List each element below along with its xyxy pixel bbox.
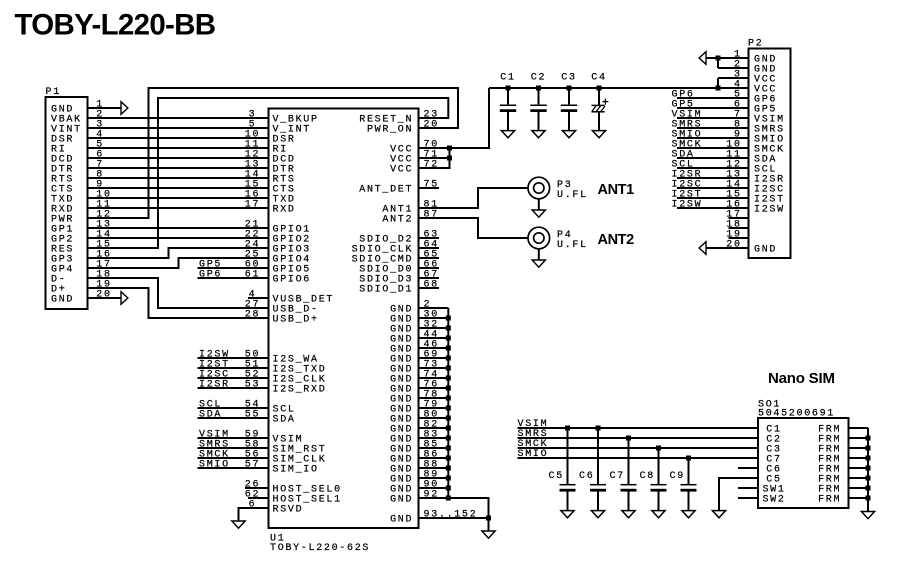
svg-text:C8: C8 xyxy=(640,471,655,482)
wire net VCC U1 pin 72 xyxy=(419,148,450,168)
P1 pin numbers 1-20 xyxy=(96,99,111,300)
U1 right pin numbers xyxy=(424,109,478,520)
svg-text:SDA: SDA xyxy=(273,414,296,425)
wire stub SIM SW1 xyxy=(738,487,758,489)
ground at C5 xyxy=(561,511,574,518)
junction dots SIM nets xyxy=(565,426,691,461)
svg-text:SDA: SDA xyxy=(199,410,222,421)
wire P2 pin 3 VCC xyxy=(718,78,749,88)
wire stub P2 pin 19 xyxy=(729,237,749,239)
wire stub U1 VUSB_DET pin 4 xyxy=(248,297,269,299)
wire net RXD P1 to U1 xyxy=(88,207,269,209)
Nano SIM heading xyxy=(768,370,835,387)
ground arrow P2 pin 20 GND xyxy=(699,242,748,255)
coax connector P4 U.FL xyxy=(528,227,588,260)
wire net VCC U1 pin 71 xyxy=(419,157,450,159)
svg-text:RSVD: RSVD xyxy=(273,504,304,515)
wire net D+ P1.19 to U1 USB_D+ xyxy=(88,288,269,318)
svg-text:ANT1: ANT1 xyxy=(598,182,635,198)
wire stub U1 SDIO_CLK pin 64 xyxy=(419,247,440,249)
wire net I2SR stub at U1 xyxy=(198,380,269,391)
svg-text:C6: C6 xyxy=(579,471,594,482)
ground arrow P1 pin 20 GND xyxy=(88,292,128,305)
junction VCC pins 70-72 xyxy=(447,146,452,161)
wire net SMRS at P2 xyxy=(672,120,749,131)
wire net DSR P1 to U1 xyxy=(88,137,269,139)
svg-text:P1: P1 xyxy=(46,87,61,98)
capacitor C1 xyxy=(500,72,516,130)
svg-text:28: 28 xyxy=(245,309,260,320)
svg-text:PWR_ON: PWR_ON xyxy=(367,124,413,135)
svg-text:GND: GND xyxy=(754,244,777,255)
svg-text:SMIO: SMIO xyxy=(199,460,230,471)
wire stub U1 SDIO_D0 pin 66 xyxy=(419,267,440,269)
svg-text:C4: C4 xyxy=(591,72,606,83)
svg-text:ANT_DET: ANT_DET xyxy=(359,184,413,195)
U1 left pin numbers xyxy=(245,109,260,510)
ground at C1 xyxy=(501,131,514,138)
svg-text:C7: C7 xyxy=(610,471,625,482)
wire net I2ST at P2 xyxy=(672,190,749,201)
wire net VINT P1 to U1 xyxy=(88,127,269,129)
svg-text:61: 61 xyxy=(245,269,260,280)
svg-text:FRM: FRM xyxy=(818,494,841,505)
P2 pin numbers 1-20 xyxy=(726,49,741,250)
svg-text:TOBY-L220-62S: TOBY-L220-62S xyxy=(270,543,370,554)
wire net I2SC at P2 xyxy=(672,180,749,191)
ground at C9 xyxy=(682,511,695,518)
wire stub U1 SDIO_D2 pin 63 xyxy=(419,237,440,239)
capacitor C8 xyxy=(640,448,667,511)
svg-text:C2: C2 xyxy=(531,72,546,83)
svg-text:RXD: RXD xyxy=(273,204,296,215)
wire net CTS P1 to U1 xyxy=(88,187,269,189)
svg-text:VCC: VCC xyxy=(390,164,413,175)
title TOBY-L220-BB xyxy=(15,9,216,42)
ground at SIM C5 xyxy=(712,511,725,518)
wire net RTS P1 to U1 xyxy=(88,177,269,179)
connector P2 xyxy=(748,38,791,258)
ground at C8 xyxy=(652,511,665,518)
wire net ANT1 U1 pin 81 to P3 xyxy=(419,188,529,208)
svg-text:53: 53 xyxy=(245,379,260,390)
capacitor C2 xyxy=(530,72,546,130)
wire U1 RSVD pin 6 to ground xyxy=(239,508,269,521)
wire net DTR P1 to U1 xyxy=(88,167,269,169)
wire P2 pin 2 GND xyxy=(718,58,749,68)
capacitor C4 polarized xyxy=(591,72,608,130)
wire net VCC U1 pin 70 to rail xyxy=(419,88,490,148)
ground at P4 xyxy=(532,260,545,267)
wire net GP5 at P2 xyxy=(672,100,749,111)
svg-text:C1: C1 xyxy=(500,72,515,83)
wire net SMIO stub at U1 xyxy=(198,460,269,471)
svg-text:SDIO_D1: SDIO_D1 xyxy=(359,284,413,295)
svg-text:17: 17 xyxy=(245,199,260,210)
wire net SMIO to SIM xyxy=(518,449,759,460)
wire net DCD P1 to U1 xyxy=(88,157,269,159)
junction dots GND bus xyxy=(446,316,491,521)
svg-text:6: 6 xyxy=(249,499,257,510)
U1 left pin names xyxy=(273,114,342,515)
op-amp U1 TOBY-L220-62S module box xyxy=(269,109,419,555)
svg-text:SIM_IO: SIM_IO xyxy=(273,464,319,475)
svg-text:C5: C5 xyxy=(549,471,564,482)
node ANT1 label xyxy=(598,182,635,198)
wire net SDA stub at U1 xyxy=(198,410,269,421)
wire stub U1 SDIO_D3 pin 67 xyxy=(419,277,440,279)
wire stub U1 SDIO_D1 pin 68 xyxy=(419,287,440,289)
wire GND bus at U1 right xyxy=(419,308,489,531)
svg-text:I2SW: I2SW xyxy=(672,200,703,211)
svg-text:GND: GND xyxy=(390,514,413,525)
svg-text:I2S_RXD: I2S_RXD xyxy=(273,384,327,395)
ground at C4 xyxy=(592,131,605,138)
wire net VSIM to SIM xyxy=(518,419,759,430)
wire SIM C5 to ground xyxy=(719,478,758,511)
wire net I2SC stub at U1 xyxy=(198,370,269,381)
svg-text:ANT2: ANT2 xyxy=(382,214,413,225)
wire net D- P1.18 to U1 USB_D- xyxy=(88,278,269,308)
wire net PWR P1.12 to U1 PWR_ON pin 20 xyxy=(88,88,459,218)
svg-text:SMIO: SMIO xyxy=(518,449,549,460)
wire net SMRS stub at U1 xyxy=(198,440,269,451)
svg-text:20: 20 xyxy=(424,119,439,130)
svg-text:C3: C3 xyxy=(561,72,576,83)
wire net SMCK stub at U1 xyxy=(198,450,269,461)
wire net VSIM stub at U1 xyxy=(198,430,269,441)
wire net SMCK at P2 xyxy=(672,140,749,151)
capacitor C9 xyxy=(670,458,697,511)
wire net I2SW stub at U1 xyxy=(198,350,269,361)
svg-text:TOBY-L220-BB: TOBY-L220-BB xyxy=(15,9,216,42)
svg-text:USB_D+: USB_D+ xyxy=(273,314,319,325)
coax connector P3 U.FL xyxy=(528,177,588,210)
svg-text:ANT2: ANT2 xyxy=(598,232,635,248)
node ANT2 label xyxy=(598,232,635,248)
wire stub U1 SDIO_CMD pin 65 xyxy=(419,257,440,259)
svg-text:Nano SIM: Nano SIM xyxy=(768,370,835,387)
ground at C6 xyxy=(591,511,604,518)
capacitor C7 xyxy=(610,438,637,511)
svg-text:GND: GND xyxy=(390,494,413,505)
connector P1 xyxy=(46,87,88,309)
ground at P3 xyxy=(532,210,545,217)
svg-text:C9: C9 xyxy=(670,471,685,482)
svg-text:P2: P2 xyxy=(748,38,763,49)
svg-text:57: 57 xyxy=(245,459,260,470)
ground at U1 RSVD xyxy=(232,521,245,528)
ground at C2 xyxy=(532,131,545,138)
junction dots FRM bus xyxy=(866,436,871,501)
svg-text:I2SR: I2SR xyxy=(199,380,230,391)
ground at FRM bus xyxy=(861,512,874,519)
wire net VSIM at P2 xyxy=(672,110,749,121)
junction P2 GND xyxy=(716,56,721,61)
wire net RI P1 to U1 xyxy=(88,147,269,149)
wire net SMCK to SIM xyxy=(518,439,759,450)
svg-text:GP6: GP6 xyxy=(199,270,222,281)
ground at U1 GND pins xyxy=(482,531,495,538)
wire net I2SR at P2 xyxy=(672,170,749,181)
U1 right pin names xyxy=(352,114,414,525)
junction dots VCC rail xyxy=(506,86,721,91)
wire net RES P1.15 to U1 RESET_N pin 23 xyxy=(88,98,449,248)
wire net I2ST stub at U1 xyxy=(198,360,269,371)
capacitor C6 xyxy=(579,428,606,511)
svg-text:U.FL: U.FL xyxy=(557,190,588,201)
wire stub SIM C6 xyxy=(738,467,758,469)
wire stub P2 pin 18 xyxy=(729,227,749,229)
wire FRM bus at SIM xyxy=(849,428,869,512)
wire stub U1 HOST_SEL0 pin 26 xyxy=(245,487,269,489)
wire net GP6 at P2 xyxy=(672,90,749,101)
ground at C7 xyxy=(622,511,635,518)
ground at C3 xyxy=(562,131,575,138)
svg-text:5045200691: 5045200691 xyxy=(758,409,835,420)
SIM connector SO1 5045200691 box xyxy=(758,400,849,509)
wire net SCL stub at U1 xyxy=(198,400,269,411)
wire stub SIM SW2 xyxy=(738,497,758,499)
wire net GP1 P1 to U1 xyxy=(88,227,269,229)
wire stub U1 HOST_SEL1 pin 62 xyxy=(248,497,269,499)
wire net GP6 stub at U1 xyxy=(198,270,269,281)
svg-text:55: 55 xyxy=(245,409,260,420)
svg-text:SW2: SW2 xyxy=(762,494,785,505)
capacitor C5 xyxy=(549,428,576,511)
svg-text:GND: GND xyxy=(51,294,74,305)
capacitor C3 xyxy=(561,72,577,130)
wire net SMIO at P2 xyxy=(672,130,749,141)
wire stub P2 pin 17 xyxy=(729,217,749,219)
ground arrow P2 pin 1 GND xyxy=(699,52,748,65)
wire net SMRS to SIM xyxy=(518,429,759,440)
wire net GP2 P1 to U1 xyxy=(88,237,269,239)
wire net I2SW at P2 xyxy=(672,200,749,211)
wire net VBAK P1 to U1 xyxy=(88,117,269,119)
wire net TXD P1 to U1 xyxy=(88,197,269,199)
wire net SDA at P2 xyxy=(672,150,749,161)
svg-text:U.FL: U.FL xyxy=(557,240,588,251)
ground arrow P1 pin 1 GND xyxy=(88,102,128,115)
svg-text:GPIO6: GPIO6 xyxy=(273,274,312,285)
wire net GP3 P1.16 to U1 GPIO3 xyxy=(88,248,269,258)
wire net VCC rail xyxy=(489,87,749,89)
wire net GP4 P1.17 to U1 GPIO4 xyxy=(88,258,269,268)
wire net ANT2 U1 pin 87 to P4 xyxy=(419,218,529,238)
wire net SCL at P2 xyxy=(672,160,749,171)
wire net GP5 stub at U1 xyxy=(198,260,269,271)
wire stub U1 ANT_DET pin 75 xyxy=(419,187,440,189)
svg-text:I2SW: I2SW xyxy=(754,204,785,215)
